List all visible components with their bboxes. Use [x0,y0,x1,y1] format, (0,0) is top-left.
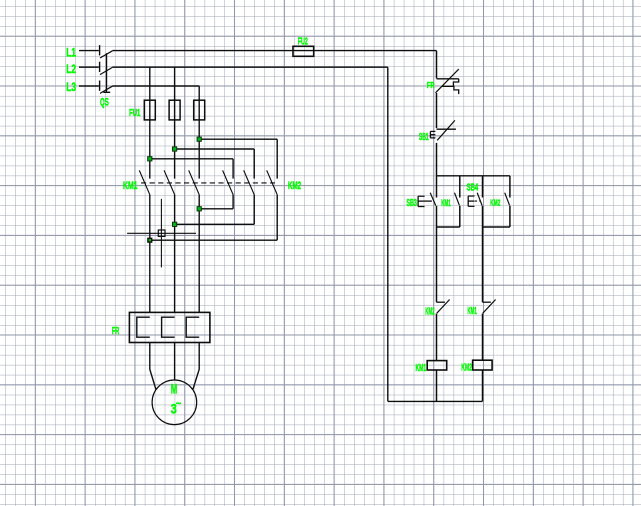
node crossover C [197,207,201,211]
pushbutton SB4 cap spine [467,196,469,206]
wire join C-D [483,226,510,228]
QS pole2 fixed contact [99,62,101,72]
pushbutton SB3 plunger [418,200,432,202]
QS pole3 fixed contact [99,81,101,91]
contactor KM1 pole2 blade [164,170,175,194]
wire phase A tap [149,67,151,178]
motor M [152,380,197,425]
wire branch A lower stub [436,206,438,227]
svg-text:QS: QS [100,96,109,108]
svg-text:FR: FR [112,326,120,337]
FR heater element 3 [186,317,199,337]
cursor pickbox [158,230,165,236]
wire branch B upper stub [459,176,461,198]
wire branch A upper stub [436,176,438,198]
pushbutton SB4 cap top [468,195,474,197]
svg-text:KM2: KM2 [288,180,301,192]
wire FR to motor V [174,343,176,381]
FR heater element 1 [137,317,150,337]
contact KM1 interlock T-bar [483,301,491,303]
svg-text:KM1: KM1 [416,363,427,374]
FR contact blade [436,69,459,93]
wire L2 into QS [79,66,99,68]
QS pole2 blade [100,67,112,74]
wire KM2 pole1 down [232,159,234,179]
wire phase C down to FR [198,195,200,313]
wire to KM2 coil [482,314,484,361]
wire FR to SB1 [436,93,438,128]
contactor linkage dashed line [141,182,275,184]
cursor crosshair horizontal [127,232,196,234]
pushbutton SB1 blade [437,120,455,140]
wire L3 to phase C [112,85,199,87]
wire KM2 pole3 out [276,195,278,241]
wire branch D lower stub [509,206,511,228]
wire crossover to phase B [175,223,255,225]
coil KM2 [473,360,493,370]
coil KM1 [427,361,447,370]
wire phase A down to FR [149,195,151,313]
wire phase B tap [174,67,176,178]
svg-text:L1: L1 [66,48,76,60]
wire KM2 pole1 out [232,195,234,209]
contact KM2 aux blade [505,193,510,206]
wire KM2 pole2 down [253,149,255,179]
node A-tap [148,157,152,161]
pushbutton SB4 plunger [468,200,474,202]
fuse FU1 element 2 [169,100,180,120]
QS linkage foot [103,91,110,93]
wire KM2 pole3 down [276,139,278,178]
contactor KM2 pole3 blade [267,170,278,194]
QS linkage bar [106,53,108,92]
wire control rail to FR contact [436,51,438,79]
svg-text:SB4: SB4 [467,182,479,194]
wire L2 to return rail [112,66,387,68]
wire KM2 coil to bottom rail [482,370,484,401]
node crossover B [172,222,176,226]
contactor KM1 pole3 blade [189,170,200,194]
QS pole1 blade [100,51,112,58]
svg-text:SB1: SB1 [419,132,429,143]
wire join A-B [437,226,460,228]
contactor KM2 pole2 blade [244,170,255,194]
svg-text:SB3: SB3 [406,197,417,209]
wire phase B down to FR [174,195,176,313]
contact KM1 aux blade [455,193,460,206]
pushbutton SB1 plunger [430,134,435,136]
pushbutton SB3 blade [430,193,436,206]
overload FR contact T-bar [437,78,459,80]
QS pole1 fixed contact [99,45,101,55]
fuse FU1 element 1 [144,100,155,120]
wire branch C lower stub [482,206,484,227]
svg-text:KM1: KM1 [441,198,451,208]
fuse FU2 [293,46,314,56]
wire phase C tap [198,86,200,179]
svg-text:KM2: KM2 [461,362,472,373]
node C-tap [197,137,201,141]
pushbutton SB4 blade [477,193,482,206]
node crossover A [147,238,152,243]
wire FR to motor W [193,343,199,390]
contactor KM2 pole1 blade [223,170,234,194]
wire control return rail down [387,67,389,401]
wire branch D upper stub [509,176,511,198]
FR heater element 2 [162,317,175,337]
node B-tap [172,147,176,151]
pushbutton SB1 cap bottom [430,137,435,139]
wire to KM1 coil [436,314,438,361]
svg-text:FR: FR [427,80,435,90]
wire FR to motor U [150,343,156,390]
contact KM2 interlock T-bar [437,301,445,303]
overload relay FR box [129,312,210,342]
wire B-tap to KM2 pole2 [175,148,255,150]
svg-text:L2: L2 [66,64,76,76]
svg-text:~: ~ [176,399,182,410]
FR release step upper [453,79,458,87]
pushbutton SB4 cap bottom [468,205,474,207]
wire bottom rail [388,400,483,402]
contact KM2 interlock blade [437,300,450,314]
wire L3 into QS [79,85,99,87]
pushbutton SB4 link dashed [475,200,480,202]
pushbutton SB1 cap spine [429,131,431,138]
svg-text:M: M [171,381,177,396]
wire crossover to phase C [199,208,233,210]
contact KM1 interlock blade [483,300,496,314]
pushbutton SB1 T-bar [437,128,456,130]
wire C-tap to KM2 pole3 [199,138,277,140]
QS pole3 blade [100,86,112,93]
pushbutton SB1 cap top [430,130,435,132]
wire branch B lower stub [459,206,461,228]
FR release step lower [442,86,459,94]
wire L1 to control rail through FU2 [112,50,436,52]
cursor crosshair vertical [160,199,162,268]
svg-text:FU1: FU1 [129,108,141,119]
wire crossover to phase A [150,239,277,241]
pushbutton SB3 cap top [418,195,425,197]
wire L1 into QS [79,50,99,52]
svg-text:KM2: KM2 [490,198,500,208]
pushbutton SB3 cap spine [417,196,419,206]
wire branch C upper stub [482,176,484,198]
contactor KM1 pole1 blade [139,170,150,194]
svg-text:L3: L3 [66,82,76,94]
wire A-tap to KM2 pole1 [150,158,233,160]
wire parallel bus [437,175,510,177]
wire branch C to KM1 interlock [482,227,484,302]
svg-text:KM1: KM1 [123,180,138,192]
wire KM1 coil to bottom rail [436,370,438,401]
fuse FU1 element 3 [194,100,205,120]
pushbutton SB3 cap bottom [418,206,425,208]
svg-text:KM2: KM2 [425,305,434,317]
wire SB1 to bus [436,143,438,176]
svg-text:FU2: FU2 [298,37,308,48]
wire KM2 pole2 out [253,195,255,225]
wire branch A to KM2 interlock [436,227,438,302]
svg-text:KM1: KM1 [467,306,477,317]
